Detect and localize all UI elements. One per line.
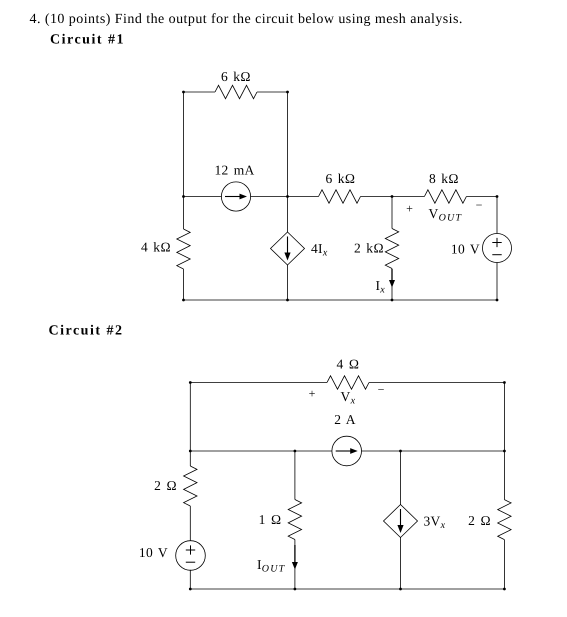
dependent source 3Vx — [384, 505, 418, 538]
current arrow IOUT — [294, 545, 296, 564]
wire middle vertical lower — [287, 265, 289, 300]
svg-text:+: + — [406, 202, 413, 216]
svg-text:4 Ω: 4 Ω — [337, 357, 360, 372]
svg-text:6 kΩ: 6 kΩ — [221, 69, 251, 84]
svg-text:2 kΩ: 2 kΩ — [354, 241, 384, 256]
svg-text:12 mA: 12 mA — [214, 163, 254, 178]
svg-text:4. (10 points) Find the output: 4. (10 points) Find the output for the c… — [30, 12, 463, 27]
svg-text:2 Ω: 2 Ω — [468, 513, 491, 528]
resistor 2 Ohm (right) — [498, 500, 511, 540]
svg-text:4 kΩ: 4 kΩ — [141, 240, 171, 255]
wire left vertical middle (circuit 2) — [189, 506, 191, 541]
svg-text:1 Ω: 1 Ω — [259, 512, 282, 527]
svg-text:6 kΩ: 6 kΩ — [326, 171, 356, 186]
wire left vertical upper — [183, 92, 185, 229]
resistor 6 kOhm (top) — [215, 85, 257, 98]
svg-text:2 A: 2 A — [334, 412, 356, 427]
current source 2 A — [332, 436, 362, 466]
junction dots circuit 2 — [189, 381, 192, 384]
resistor 6 kOhm (middle) — [319, 190, 361, 203]
svg-text:VOUT: VOUT — [429, 206, 463, 224]
wire mid-left segment — [184, 196, 222, 198]
svg-text:−: − — [378, 383, 385, 397]
svg-text:Circuit #2: Circuit #2 — [49, 324, 124, 339]
wire 3Vx branch lower — [400, 538, 402, 590]
resistor 8 kOhm — [424, 190, 466, 203]
wire bottom (circuit 2) — [190, 588, 504, 590]
current arrow Ix — [391, 269, 393, 282]
resistor 4 kOhm — [177, 229, 190, 269]
wire second row right segment — [362, 450, 505, 452]
wire second row left segment — [190, 450, 332, 452]
svg-text:8 kΩ: 8 kΩ — [429, 171, 459, 186]
wire right vertical lower — [496, 263, 498, 301]
svg-text:IOUT: IOUT — [257, 557, 286, 575]
wire top-right segment (circuit 2) — [369, 382, 504, 384]
wire bottom (circuit 1) — [184, 299, 498, 301]
wire left vertical top (circuit 2) — [189, 383, 191, 467]
wire right vertical bottom (circuit 2) — [503, 540, 505, 589]
svg-text:+: + — [309, 387, 316, 401]
wire mid segment between 12mA and 6k — [250, 196, 318, 198]
voltage source 10 V (circuit 2) — [176, 541, 206, 571]
svg-text:Vx: Vx — [341, 389, 356, 407]
wire top-left segment (circuit 2) — [190, 382, 327, 384]
dependent source 4Ix — [271, 232, 305, 265]
wire top-right segment — [257, 91, 288, 93]
junction dots circuit 1 — [182, 91, 185, 94]
wire 3Vx branch upper — [400, 451, 402, 505]
wire 2k branch upper — [391, 197, 393, 229]
wire middle vertical upper — [287, 92, 289, 232]
wire right vertical top (circuit 2) — [503, 383, 505, 500]
resistor 1 Ohm — [288, 500, 301, 540]
svg-text:3Vx: 3Vx — [424, 514, 446, 532]
svg-text:4Ix: 4Ix — [311, 241, 328, 259]
wire 1 Ohm branch upper — [294, 451, 296, 500]
svg-text:2 Ω: 2 Ω — [154, 478, 177, 493]
svg-text:10 V: 10 V — [139, 545, 168, 560]
resistor 4 Ohm — [327, 376, 369, 389]
svg-text:Circuit #1: Circuit #1 — [50, 33, 125, 48]
svg-text:Ix: Ix — [376, 278, 386, 296]
svg-text:10 V: 10 V — [451, 242, 480, 257]
voltage source 10 V (circuit 1) — [483, 234, 512, 263]
wire left vertical lower — [183, 269, 185, 300]
svg-text:−: − — [476, 198, 483, 212]
wire 2k branch lower — [391, 269, 393, 301]
resistor 2 kOhm — [385, 229, 398, 269]
current source 12 mA — [221, 182, 250, 211]
wire mid-right segment — [466, 196, 497, 198]
wire left vertical bottom (circuit 2) — [189, 570, 191, 589]
wire 1 Ohm branch lower — [294, 540, 296, 590]
wire mid segment between 6k and 8k — [361, 196, 425, 198]
wire top-left segment — [184, 91, 216, 93]
resistor 2 Ohm (left) — [184, 466, 197, 506]
wire right vertical upper — [496, 197, 498, 234]
